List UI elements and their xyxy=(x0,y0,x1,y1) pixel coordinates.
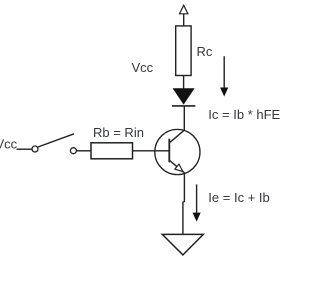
svg-text:Vcc: Vcc xyxy=(0,136,18,151)
svg-text:Rb = Rin: Rb = Rin xyxy=(93,125,144,140)
svg-text:Rc: Rc xyxy=(197,44,213,59)
svg-text:Vcc: Vcc xyxy=(132,60,154,75)
svg-text:Ie = Ic + Ib: Ie = Ic + Ib xyxy=(208,190,269,205)
svg-text:Ic = Ib * hFE: Ic = Ib * hFE xyxy=(208,107,280,122)
